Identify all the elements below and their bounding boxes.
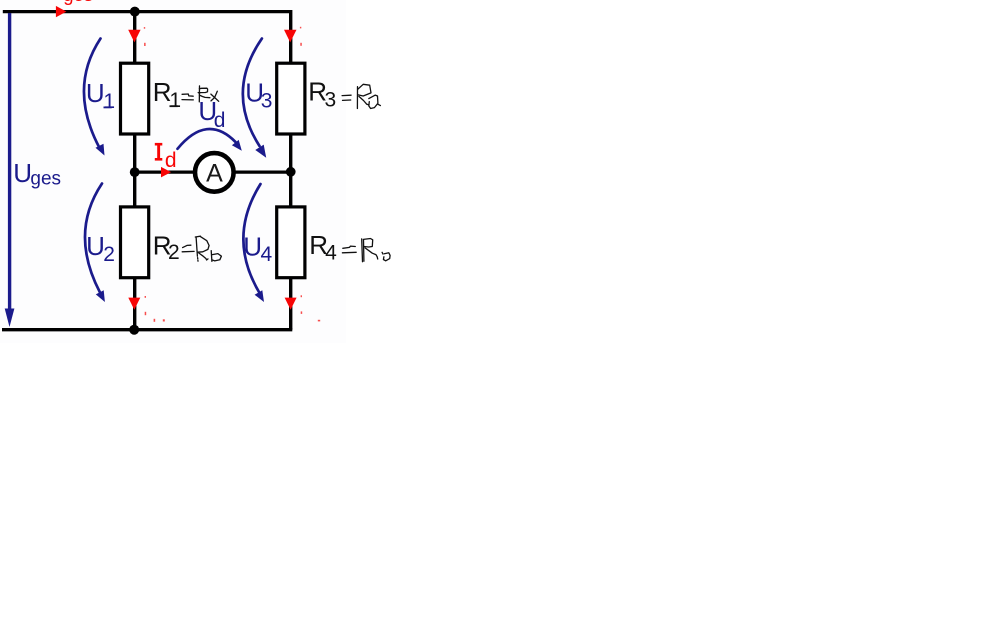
svg-text:4: 4 <box>261 243 273 266</box>
node bottom junction <box>129 325 139 335</box>
svg-text:U: U <box>13 158 32 188</box>
arc U2 <box>85 184 102 293</box>
svg-text:4: 4 <box>325 241 337 264</box>
resistor R4 <box>277 207 305 278</box>
svg-text:U: U <box>86 78 105 108</box>
arrow current into R3 <box>284 30 297 43</box>
wire right lower branch <box>289 279 292 330</box>
wire top rail <box>3 10 291 13</box>
node bridge left <box>130 167 140 177</box>
arrow current into R1 <box>128 30 140 43</box>
svg-text:ges: ges <box>63 0 93 5</box>
resistor R3 <box>277 63 305 134</box>
svg-text:d: d <box>165 149 177 172</box>
wire left upper branch <box>133 12 136 63</box>
arrow Uges vertical <box>8 13 11 309</box>
node top junction <box>130 7 140 17</box>
svg-text:2: 2 <box>168 241 180 264</box>
arrow Iges on top rail <box>56 6 67 17</box>
arc U3 <box>243 39 262 147</box>
svg-text:1: 1 <box>169 89 181 112</box>
wire right upper <box>289 10 292 63</box>
ammeter U1 meter A <box>195 153 234 192</box>
svg-text:U: U <box>243 231 262 261</box>
wire left middle branch <box>133 135 136 207</box>
label R2 value =Rb handwritten <box>182 236 221 261</box>
wire left lower branch <box>133 279 136 330</box>
wire bottom rail <box>2 328 292 331</box>
arc U1 <box>84 39 101 148</box>
arc Ud over ammeter <box>178 129 236 149</box>
label Id <box>155 143 163 161</box>
svg-text:ges: ges <box>30 169 61 190</box>
svg-text:A: A <box>206 160 223 188</box>
label R1 value =Rx handwritten <box>182 86 219 102</box>
svg-text:d: d <box>214 109 226 132</box>
wire bridge horizontal <box>135 171 291 174</box>
artifact specks red <box>144 27 320 322</box>
label R3 value = Ro handwritten <box>342 84 380 108</box>
svg-text:U: U <box>86 231 105 261</box>
arc U4 <box>243 184 260 292</box>
svg-text:3: 3 <box>325 89 337 112</box>
wire right middle branch <box>289 135 292 207</box>
svg-text:3: 3 <box>261 90 273 113</box>
svg-text:1: 1 <box>103 90 115 113</box>
arrow current out of R4 <box>285 298 297 310</box>
node bridge right <box>286 167 296 177</box>
resistor R1 <box>121 63 149 134</box>
arrow Id on bridge wire <box>161 167 171 178</box>
label R4 value = Rb handwritten <box>342 239 390 262</box>
arrow current out of R2 <box>128 298 140 310</box>
svg-text:2: 2 <box>103 243 115 266</box>
resistor R2 <box>121 207 149 278</box>
